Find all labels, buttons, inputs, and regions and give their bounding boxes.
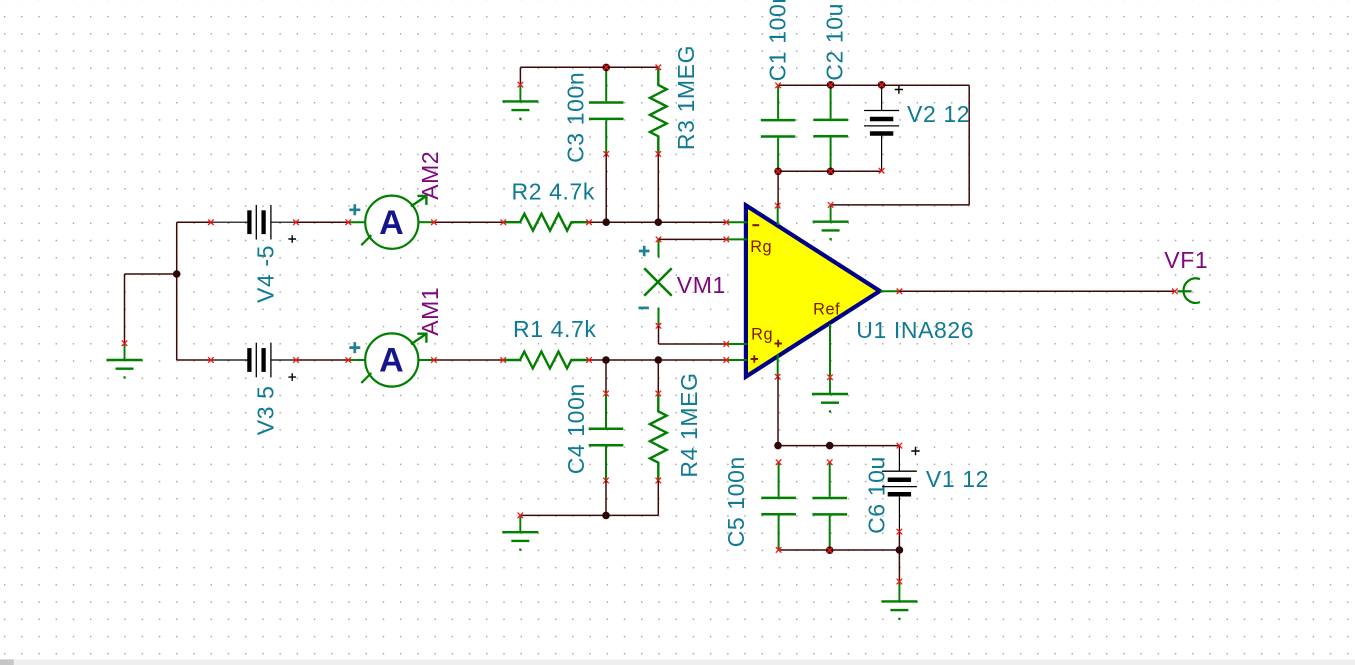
svg-text:C6 10u: C6 10u <box>864 456 890 534</box>
plus sign of V4 <box>288 235 296 243</box>
battery V2 12 <box>864 85 899 174</box>
svg-text:R2 4.7k: R2 4.7k <box>512 179 595 205</box>
wire bottom supply rail <box>778 445 899 447</box>
node junction C2 top <box>827 81 835 89</box>
ammeter AM2 <box>346 151 444 249</box>
wire resistor R2 to op-amp negative input <box>589 221 726 223</box>
svg-text:Rg: Rg <box>750 238 772 256</box>
wire top rail from left corner to battery V4 <box>177 221 211 223</box>
capacitor C2 10u <box>813 85 848 171</box>
wire bottom rail to capacitor C4 <box>605 360 607 394</box>
plus sign of V1 <box>911 447 919 455</box>
svg-text:Ref: Ref <box>813 301 840 319</box>
svg-text:AM1: AM1 <box>417 287 443 336</box>
svg-text:A: A <box>379 204 404 242</box>
wire C3 to top rail <box>605 154 607 222</box>
op-amp pin negative input stub <box>724 219 748 225</box>
op-amp pin positive input stub <box>724 357 748 363</box>
wire top supply return to ground <box>831 204 970 206</box>
capacitor C1 100n <box>761 83 796 172</box>
wire bottom rail from left corner to battery V3 <box>177 359 211 361</box>
svg-text:R3 1MEG: R3 1MEG <box>673 45 699 150</box>
wire bottom supply lower net <box>779 549 900 551</box>
node junction R4 bottom rail <box>655 356 663 364</box>
svg-text:VM1: VM1 <box>677 272 726 298</box>
svg-text:Rg: Rg <box>751 325 773 343</box>
svg-text:C4 100n: C4 100n <box>563 383 589 474</box>
op-amp pin V+ top stub <box>775 203 781 225</box>
wire ammeter AM1 to resistor R1 <box>434 359 503 361</box>
ammeter AM1 <box>346 287 444 387</box>
svg-text:R4 1MEG: R4 1MEG <box>676 372 702 477</box>
node junction at left riser <box>173 270 181 278</box>
svg-text:C3 100n: C3 100n <box>563 72 589 163</box>
node junction C4 bottom net <box>602 512 610 520</box>
op-amp output stub <box>880 289 902 295</box>
battery V3 5 <box>208 343 299 378</box>
wire battery V4 to ammeter AM2 <box>296 221 348 223</box>
wire bottom supply ground drop <box>898 550 900 582</box>
node junction C4 bottom rail <box>602 356 610 364</box>
svg-text:R1 4.7k: R1 4.7k <box>513 316 596 342</box>
svg-text:V4 -5: V4 -5 <box>253 245 279 303</box>
svg-text:U1 INA826: U1 INA826 <box>856 317 974 343</box>
svg-text:C1 100n: C1 100n <box>765 0 791 81</box>
node junction V1 bottom <box>896 546 904 554</box>
svg-text:C5 100n: C5 100n <box>723 456 749 547</box>
scrollbar thumb <box>0 659 14 665</box>
plus sign of V2 <box>895 85 903 93</box>
wire op-amp output to VF1 <box>899 290 1174 292</box>
op-amp pin Rg bottom stub <box>724 341 748 347</box>
resistor R3 1MEG <box>650 65 667 157</box>
wire ammeter AM2 to resistor R2 <box>434 221 503 223</box>
svg-text:V1 12: V1 12 <box>926 466 989 492</box>
op-amp pin label plus small near Rg <box>775 340 782 347</box>
wire top C3-R3 net <box>520 67 658 84</box>
resistor R2 4.7k <box>501 214 592 231</box>
scrollbar track <box>0 659 1355 665</box>
wire bottom rail to resistor R4 <box>657 360 659 394</box>
svg-text:VF1: VF1 <box>1164 247 1208 273</box>
wire top supply rail <box>778 84 969 86</box>
capacitor C3 100n <box>589 67 624 156</box>
wire mid supply to op-amp V+ <box>777 171 779 205</box>
op-amp pin label plus input <box>751 355 758 362</box>
node junction C6 top rail <box>826 442 834 450</box>
capacitor C5 100n <box>761 459 796 552</box>
wire V1 bottom link <box>898 532 900 550</box>
wire op-amp V- down <box>777 377 779 446</box>
svg-text:V2 12: V2 12 <box>907 101 970 127</box>
node junction C3 top net with pin x <box>602 64 610 72</box>
wire left vertical riser between rails <box>176 222 178 360</box>
op-amp U1 INA826 body <box>746 205 880 376</box>
node junction R3 top rail <box>655 218 663 226</box>
battery V4 -5 <box>208 205 299 240</box>
node junction C2 bottom <box>827 168 835 176</box>
wire VM1 minus to Rg bottom pin <box>659 326 727 344</box>
ground left <box>107 340 143 378</box>
voltmeter VM1 <box>639 237 672 329</box>
plus sign of V3 <box>288 373 296 381</box>
wire R3 to top rail <box>657 154 659 222</box>
svg-text:V3 5: V3 5 <box>253 385 279 435</box>
wire top supply right drop <box>968 85 970 205</box>
op-amp pin Rg top stub <box>724 237 748 243</box>
resistor R4 1MEG <box>650 391 667 484</box>
node junction V2 top <box>878 81 886 89</box>
ground top supply return <box>813 202 849 240</box>
wire battery V3 to ammeter AM1 <box>296 359 348 361</box>
output pin VF1 connector <box>1172 278 1200 303</box>
wire VM1 plus to Rg top pin <box>659 238 727 240</box>
svg-text:AM2: AM2 <box>417 151 443 200</box>
op-amp pin Ref stub and ground <box>812 324 848 413</box>
op-amp pin label minus <box>752 224 759 226</box>
capacitor C6 10u <box>812 459 847 550</box>
ground bottom supply <box>881 579 917 620</box>
ground top left <box>502 82 538 120</box>
node junction C6 bottom <box>826 546 834 554</box>
node junction C1 bottom <box>774 168 782 176</box>
node junction C5 top rail <box>774 442 782 450</box>
svg-text:C2 10u: C2 10u <box>822 3 848 81</box>
resistor R1 4.7k <box>500 352 591 369</box>
capacitor C4 100n <box>589 391 624 484</box>
wire spur from riser junction to left ground <box>125 274 177 343</box>
svg-text:A: A <box>379 342 404 380</box>
wire C4 down to bottom net <box>605 481 607 516</box>
ground bottom left <box>502 513 538 551</box>
battery V1 12 <box>882 443 917 535</box>
wire R4 down to bottom net <box>657 481 659 516</box>
wire resistor R1 to op-amp positive input <box>589 359 726 361</box>
op-amp pin V- bottom stub <box>775 355 781 380</box>
node junction C3 top rail <box>602 218 610 226</box>
wire bottom net horizontal <box>520 514 658 516</box>
wire mid supply net C1 C2 V2 bottoms <box>778 170 882 172</box>
